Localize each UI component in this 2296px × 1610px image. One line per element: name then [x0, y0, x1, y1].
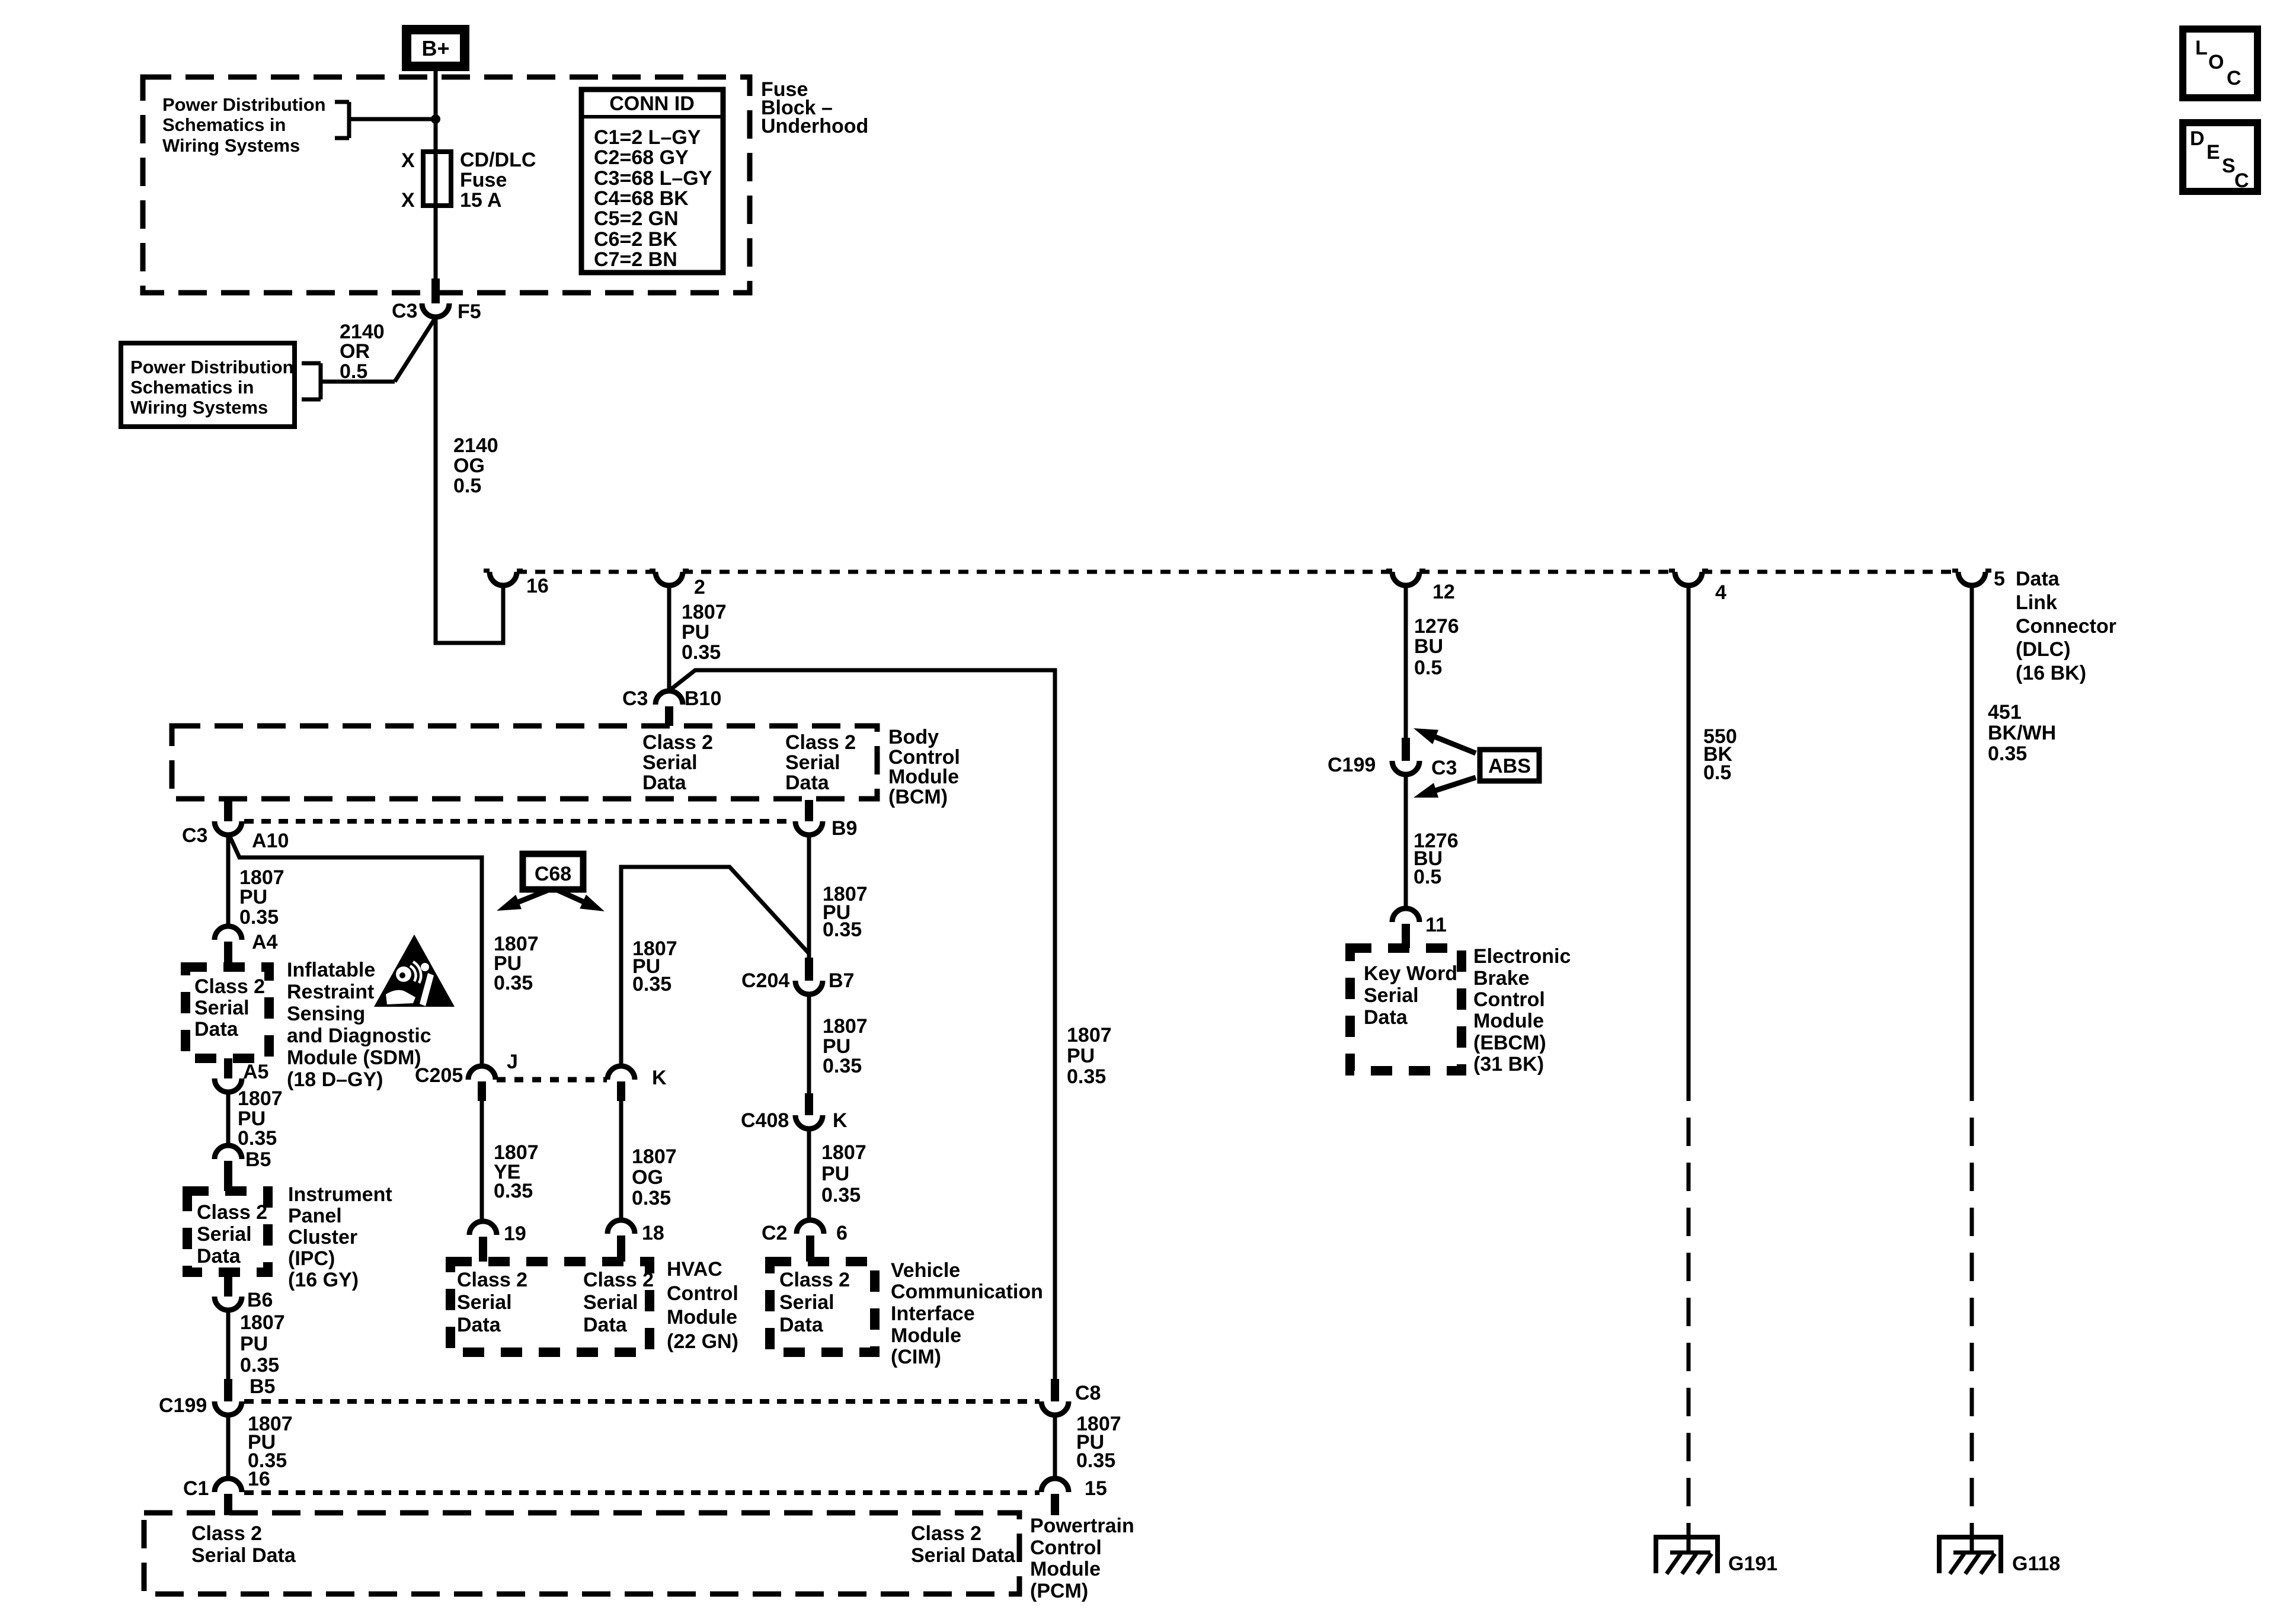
connector HVAC pin 19	[469, 1221, 497, 1262]
svg-text:Wiring Systems: Wiring Systems	[130, 397, 268, 418]
svg-text:C205: C205	[415, 1064, 463, 1087]
svg-text:Data: Data	[642, 772, 687, 794]
svg-text:Class 2: Class 2	[457, 1269, 527, 1291]
connector C3 F5	[422, 279, 449, 317]
svg-text:Restraint: Restraint	[287, 981, 374, 1003]
svg-text:Data: Data	[1364, 1006, 1408, 1029]
svg-text:E: E	[2207, 141, 2220, 164]
svg-text:C: C	[2234, 169, 2249, 192]
svg-text:BK/WH: BK/WH	[1988, 722, 2056, 744]
svg-text:Vehicle: Vehicle	[891, 1259, 960, 1282]
label 1807 PU 0.35 (SDM)	[239, 866, 284, 929]
svg-text:G191: G191	[1728, 1553, 1777, 1575]
connector DLC pin 12	[1386, 571, 1425, 585]
svg-text:Module: Module	[667, 1306, 737, 1329]
svg-text:Serial Data: Serial Data	[191, 1544, 296, 1567]
wire 1276 BU 0.5 (upper)	[1404, 584, 1408, 738]
svg-text:Control: Control	[1473, 988, 1545, 1011]
wire 1807 PU 0.35 (C199-C1)	[226, 1415, 231, 1478]
wire 1807 PU (C8-15)	[1053, 1415, 1057, 1478]
connector A4	[215, 926, 242, 967]
svg-text:C: C	[2227, 67, 2241, 89]
svg-text:Class 2: Class 2	[197, 1201, 267, 1224]
svg-text:Module: Module	[891, 1324, 961, 1347]
label Vehicle Communication Interface Module (CIM)	[891, 1259, 1043, 1368]
connector C1 pin 16	[215, 1478, 242, 1515]
svg-text:Electronic: Electronic	[1473, 945, 1571, 968]
svg-text:S: S	[2222, 155, 2236, 177]
wire 1276 BU 0.5 (lower)	[1404, 774, 1408, 909]
svg-text:1807: 1807	[682, 601, 727, 623]
svg-text:Serial: Serial	[779, 1291, 834, 1314]
svg-text:Data: Data	[457, 1314, 501, 1336]
label Power Distribution Schematics in Wiring Systems (fuse block)	[162, 94, 326, 156]
svg-text:18: 18	[642, 1222, 664, 1244]
label CD/DLC Fuse 15 A	[460, 149, 536, 212]
connector HVAC pin 18	[607, 1220, 635, 1262]
svg-text:(DLC): (DLC)	[2016, 638, 2071, 661]
svg-text:(PCM): (PCM)	[1030, 1580, 1088, 1602]
svg-text:0.35: 0.35	[1076, 1449, 1115, 1472]
junction dot	[431, 114, 440, 124]
DESC tab box	[2183, 123, 2257, 192]
connector C8	[1041, 1379, 1069, 1415]
dotted connector line C3-B9	[244, 819, 794, 824]
label 1276 BU 0.5 (lower)	[1414, 830, 1459, 888]
svg-text:(IPC): (IPC)	[288, 1247, 335, 1270]
svg-text:G118: G118	[2012, 1553, 2060, 1575]
svg-text:B6: B6	[247, 1289, 273, 1311]
svg-text:0.35: 0.35	[494, 972, 533, 994]
module box IPC Class 2 Serial Data	[187, 1191, 268, 1272]
wire 1807 PU branch to PCM C8	[670, 670, 1055, 1379]
svg-text:C3=68 L–GY: C3=68 L–GY	[594, 167, 712, 190]
wire 1807 PU (B7-C408)	[807, 994, 811, 1093]
label Body Control Module (BCM)	[888, 726, 960, 808]
svg-text:0.35: 0.35	[240, 1354, 279, 1377]
svg-text:Inflatable: Inflatable	[287, 959, 375, 981]
svg-text:PU: PU	[682, 621, 709, 644]
svg-text:Data: Data	[583, 1314, 628, 1336]
svg-text:J: J	[507, 1051, 518, 1073]
svg-text:(16 GY): (16 GY)	[288, 1269, 359, 1291]
svg-text:Data: Data	[785, 772, 830, 794]
svg-text:451: 451	[1988, 701, 2022, 724]
svg-text:4: 4	[1715, 581, 1726, 604]
svg-text:C68: C68	[535, 863, 571, 885]
svg-text:(18 D–GY): (18 D–GY)	[287, 1068, 383, 1091]
wire 1807 PU (C408-CIM)	[807, 1129, 811, 1220]
svg-text:C4=68 BK: C4=68 BK	[594, 187, 689, 210]
svg-text:Serial: Serial	[583, 1291, 638, 1314]
connector DLC pin 2	[650, 571, 689, 585]
wire 1807 PU (K branch)	[621, 867, 808, 1067]
power symbol B+	[402, 25, 469, 71]
svg-text:Connector: Connector	[2016, 615, 2116, 638]
svg-text:B5: B5	[250, 1375, 275, 1398]
svg-text:Fuse: Fuse	[460, 169, 507, 191]
svg-text:C6=2 BK: C6=2 BK	[594, 228, 677, 251]
svg-text:Power Distribution: Power Distribution	[162, 94, 326, 115]
svg-text:C3: C3	[622, 687, 648, 710]
dotted connector line C199-C8	[244, 1399, 1040, 1404]
label 1807 YE 0.35	[494, 1141, 539, 1202]
svg-text:1807: 1807	[1067, 1024, 1112, 1046]
wire B+ to fuse	[434, 70, 438, 281]
svg-text:HVAC: HVAC	[667, 1258, 722, 1281]
svg-text:Class 2: Class 2	[191, 1522, 262, 1545]
svg-text:0.35: 0.35	[632, 1187, 671, 1209]
svg-text:1807: 1807	[821, 1141, 866, 1164]
svg-text:Class 2: Class 2	[911, 1522, 981, 1545]
svg-text:X: X	[401, 149, 415, 172]
svg-text:(16 BK): (16 BK)	[2016, 662, 2086, 684]
svg-text:Class 2: Class 2	[583, 1269, 654, 1291]
svg-text:C1: C1	[183, 1477, 209, 1500]
svg-text:Body: Body	[888, 726, 939, 748]
svg-text:Control: Control	[1030, 1537, 1102, 1559]
svg-text:15 A: 15 A	[460, 189, 502, 212]
wire 1807 PU 0.35 (A5-B5)	[226, 1092, 231, 1145]
module box CIM	[770, 1262, 875, 1352]
svg-text:C3: C3	[1431, 757, 1457, 779]
svg-text:1807: 1807	[823, 1015, 868, 1038]
label 1807 PU 0.35 (B7)	[823, 1015, 868, 1077]
label 1807 PU 0.35 (K)	[632, 937, 677, 996]
dotted connector line C1-15	[244, 1490, 1040, 1495]
label 1807 OG 0.35	[632, 1145, 677, 1209]
label 2140 OR 0.5	[340, 321, 385, 383]
svg-text:1807: 1807	[632, 1145, 677, 1168]
splice C68 box	[523, 854, 583, 889]
svg-text:B10: B10	[685, 687, 721, 710]
label Key Word Serial Data	[1364, 962, 1457, 1029]
label 1807 PU 0.35 (C8 branch)	[1067, 1024, 1112, 1088]
module box Key Word Serial Data (EBCM)	[1350, 948, 1462, 1071]
label 1276 BU 0.5 (upper)	[1414, 615, 1459, 679]
wire 1807 OG 0.35	[619, 1101, 623, 1220]
label Class 2 Serial Data (SDM)	[194, 975, 265, 1041]
connector A5	[215, 1058, 242, 1092]
svg-text:A4: A4	[252, 931, 278, 953]
label Class 2 Serial Data (IPC)	[197, 1201, 267, 1267]
label 1807 PU 0.35 (A5-B5)	[238, 1087, 283, 1150]
label Instrument Panel Cluster (IPC) (16 GY)	[288, 1183, 392, 1291]
svg-text:0.35: 0.35	[494, 1180, 533, 1202]
svg-text:Link: Link	[2016, 591, 2057, 614]
label Class 2 Serial Data (PCM left)	[191, 1522, 296, 1567]
label 1807 PU 0.35 (C408)	[821, 1141, 866, 1206]
svg-text:CD/DLC: CD/DLC	[460, 149, 536, 171]
svg-text:Data: Data	[779, 1314, 824, 1336]
svg-text:Serial: Serial	[194, 997, 250, 1019]
svg-text:0.35: 0.35	[239, 906, 279, 929]
svg-text:0.5: 0.5	[1703, 761, 1731, 784]
svg-text:0.35: 0.35	[632, 973, 671, 996]
svg-text:0.35: 0.35	[1988, 742, 2027, 765]
svg-text:0.5: 0.5	[1414, 657, 1442, 679]
wire 1807 PU (A10 to C205 J)	[229, 836, 482, 1067]
label Inflatable Restraint Sensing and Diagnostic Module (SDM) (18 D-GY)	[287, 959, 431, 1091]
wire 2140 OG 0.5	[436, 317, 503, 643]
svg-text:C408: C408	[741, 1109, 789, 1132]
svg-text:19: 19	[504, 1222, 526, 1245]
wire 1807 PU (B9 to C204)	[807, 835, 811, 958]
connector C199 B5	[215, 1379, 242, 1415]
svg-text:Data: Data	[197, 1245, 241, 1267]
svg-text:K: K	[652, 1067, 667, 1089]
connector B9	[795, 800, 823, 835]
reference box ABS	[1480, 750, 1539, 781]
module box SDM Class 2 Serial Data	[186, 967, 269, 1058]
connector B6	[215, 1272, 242, 1310]
svg-text:C3: C3	[182, 824, 207, 847]
connector C199 C3 (EBCM)	[1392, 738, 1419, 774]
arrow ABS upper	[1430, 735, 1476, 753]
svg-text:Sensing: Sensing	[287, 1003, 365, 1025]
svg-text:1807: 1807	[240, 1311, 285, 1334]
svg-text:OG: OG	[453, 454, 485, 477]
svg-text:1276: 1276	[1414, 615, 1459, 638]
svg-text:PU: PU	[240, 1333, 268, 1355]
module box PCM	[144, 1513, 1019, 1594]
svg-text:Serial: Serial	[457, 1291, 512, 1314]
svg-text:0.5: 0.5	[453, 475, 481, 497]
svg-text:ABS: ABS	[1488, 755, 1531, 777]
svg-text:Schematics in: Schematics in	[130, 377, 254, 398]
svg-text:Data: Data	[2016, 568, 2060, 590]
svg-text:PU: PU	[1067, 1045, 1095, 1067]
svg-text:Powertrain: Powertrain	[1030, 1515, 1134, 1537]
label Electronic Brake Control Module (EBCM) (31 BK)	[1473, 945, 1571, 1076]
dotted connector line J-K	[497, 1077, 607, 1083]
ground G191	[1654, 1523, 1720, 1574]
svg-text:Underhood: Underhood	[761, 115, 868, 137]
label Class 2 Serial Data (BCM right)	[785, 731, 856, 794]
connector C3 B10	[655, 691, 683, 726]
connector DLC pin 5	[1952, 571, 1991, 585]
svg-text:5: 5	[1994, 568, 2005, 590]
module box BCM	[172, 726, 877, 799]
svg-text:Serial: Serial	[785, 751, 840, 774]
svg-text:F5: F5	[458, 300, 481, 323]
svg-text:C2: C2	[762, 1222, 787, 1244]
svg-text:Communication: Communication	[891, 1281, 1043, 1303]
svg-text:Power Distribution: Power Distribution	[130, 357, 294, 377]
connector C2 pin 6	[797, 1220, 824, 1262]
svg-text:(BCM): (BCM)	[888, 786, 948, 808]
svg-text:K: K	[833, 1109, 848, 1132]
label Data Link Connector (DLC) (16 BK)	[2016, 568, 2116, 684]
wire bracket to B+ feed	[349, 117, 436, 121]
svg-text:Key Word: Key Word	[1364, 962, 1457, 985]
label 1807 PU 0.35 (C8-15)	[1076, 1413, 1121, 1472]
module box HVAC Control Module	[450, 1262, 650, 1352]
svg-text:D: D	[2190, 127, 2205, 150]
CONN ID table	[581, 89, 723, 273]
label Class 2 Serial Data (HVAC right)	[583, 1269, 654, 1336]
svg-text:(22 GN): (22 GN)	[667, 1330, 738, 1353]
svg-text:Cluster: Cluster	[288, 1226, 357, 1249]
connector B5 (IPC)	[215, 1145, 242, 1191]
label Class 2 Serial Data (CIM)	[779, 1269, 850, 1336]
label 1807 PU 0.35 (B9)	[823, 883, 868, 941]
wire 451 BK/WH dashed to G118	[1970, 1073, 1974, 1535]
svg-text:BU: BU	[1414, 635, 1443, 658]
svg-text:(EBCM): (EBCM)	[1473, 1032, 1546, 1054]
label 1807 PU 0.35 16	[248, 1413, 293, 1490]
wire 2140 OR to connector	[321, 319, 434, 382]
wire 451 BK/WH 0.35	[1970, 584, 1974, 1073]
svg-text:Class 2: Class 2	[642, 731, 713, 754]
svg-text:12: 12	[1432, 581, 1455, 603]
wire 1807 PU 0.35 to BCM	[667, 584, 671, 691]
svg-text:0.35: 0.35	[821, 1184, 861, 1206]
svg-text:C199: C199	[1328, 754, 1376, 776]
svg-text:0.5: 0.5	[340, 360, 367, 383]
connector C408 K	[795, 1093, 823, 1129]
connector C205 J	[468, 1066, 495, 1101]
svg-text:0.35: 0.35	[682, 641, 721, 664]
svg-text:C3: C3	[392, 300, 417, 322]
svg-text:C204: C204	[741, 969, 789, 992]
svg-text:0.35: 0.35	[1067, 1065, 1106, 1088]
svg-text:15: 15	[1085, 1477, 1107, 1500]
svg-text:Module: Module	[1030, 1558, 1101, 1580]
fuse block underhood dashed box	[143, 77, 750, 293]
label 1807 PU 0.35 (B6-B5)	[240, 1311, 285, 1377]
svg-text:C7=2 BN: C7=2 BN	[594, 248, 677, 271]
bracket to wire 2140	[302, 363, 321, 399]
svg-text:C2=68 GY: C2=68 GY	[594, 146, 689, 169]
svg-text:2: 2	[694, 576, 705, 598]
svg-text:B5: B5	[245, 1148, 271, 1171]
svg-text:Schematics in: Schematics in	[162, 114, 286, 135]
svg-text:Data: Data	[194, 1018, 239, 1041]
svg-text:Interface: Interface	[891, 1302, 975, 1325]
DLC internal bus dashed line	[517, 570, 1959, 574]
svg-text:Instrument: Instrument	[288, 1183, 392, 1206]
label Powertrain Control Module (PCM)	[1030, 1515, 1134, 1602]
svg-text:0.5: 0.5	[1414, 866, 1441, 888]
svg-text:B7: B7	[829, 969, 854, 992]
svg-text:Module: Module	[1473, 1010, 1544, 1032]
svg-text:11: 11	[1425, 914, 1447, 936]
svg-text:OR: OR	[340, 340, 370, 363]
svg-text:OG: OG	[632, 1166, 663, 1189]
svg-text:O: O	[2208, 51, 2224, 73]
svg-text:0.35: 0.35	[238, 1127, 277, 1150]
label Class 2 Serial Data (PCM right)	[911, 1522, 1016, 1567]
svg-text:Wiring Systems: Wiring Systems	[162, 135, 300, 156]
connector DLC pin 4	[1669, 571, 1708, 585]
svg-text:1807: 1807	[238, 1087, 283, 1110]
svg-text:A5: A5	[243, 1061, 268, 1083]
svg-text:Module: Module	[888, 766, 959, 788]
warning triangle airbag icon	[374, 934, 455, 1007]
wire 1807 PU 0.35 (SDM)	[226, 835, 231, 926]
reference box Power Distribution Schematics in Wiring Systems	[121, 343, 295, 427]
connector C3 A10	[215, 800, 242, 835]
svg-text:Class 2: Class 2	[785, 731, 856, 754]
wire 1807 PU 0.35 (B6-B5)	[226, 1310, 231, 1379]
ground G118	[1937, 1523, 2003, 1574]
svg-text:A10: A10	[252, 830, 289, 852]
svg-text:(31 BK): (31 BK)	[1473, 1053, 1544, 1076]
svg-text:PU: PU	[239, 886, 267, 908]
svg-text:B9: B9	[832, 817, 857, 840]
svg-text:Module (SDM): Module (SDM)	[287, 1046, 421, 1069]
svg-text:(CIM): (CIM)	[891, 1346, 941, 1368]
arrow C68 right	[555, 889, 589, 904]
svg-text:Serial Data: Serial Data	[911, 1544, 1016, 1567]
wire 550 BK 0.5	[1687, 584, 1691, 1073]
svg-text:Serial: Serial	[1364, 984, 1419, 1007]
label Class 2 Serial Data (HVAC left)	[457, 1269, 527, 1336]
svg-text:B+: B+	[421, 36, 449, 60]
connector C205 K	[607, 1066, 635, 1101]
label Class 2 Serial Data (BCM left)	[642, 731, 713, 794]
svg-text:and Diagnostic: and Diagnostic	[287, 1025, 431, 1047]
svg-text:C8: C8	[1075, 1382, 1101, 1404]
svg-text:Class 2: Class 2	[194, 975, 265, 998]
connector DLC pin 16	[484, 571, 523, 585]
svg-text:C1=2 L–GY: C1=2 L–GY	[594, 126, 701, 149]
svg-text:Class 2: Class 2	[779, 1269, 850, 1291]
label 1807 PU 0.35 (J)	[494, 933, 539, 994]
connector PCM pin 15	[1041, 1478, 1069, 1515]
bracket to wire	[335, 102, 349, 138]
label 1807 PU 0.35 (pin 2)	[682, 601, 727, 664]
svg-text:0.35: 0.35	[823, 1055, 862, 1077]
label HVAC Control Module (22 GN)	[667, 1258, 738, 1353]
svg-text:Serial: Serial	[642, 751, 698, 774]
label 2140 OG 0.5	[453, 434, 498, 497]
svg-text:2140: 2140	[453, 434, 498, 457]
svg-text:Control: Control	[667, 1282, 738, 1305]
wire 1807 YE 0.35	[480, 1101, 484, 1221]
LOC tab box	[2183, 29, 2257, 98]
connector C204 B7	[795, 958, 823, 994]
label Fuse Block - Underhood	[761, 78, 868, 137]
wire 550 BK dashed to G191	[1687, 1073, 1691, 1535]
label 451 BK/WH 0.35	[1988, 701, 2056, 765]
arrow C68 left	[513, 889, 551, 904]
svg-text:Brake: Brake	[1473, 967, 1530, 990]
svg-text:PU: PU	[821, 1163, 849, 1185]
label 550 BK 0.5	[1703, 725, 1737, 784]
svg-text:16: 16	[526, 575, 549, 597]
arrow ABS lower	[1431, 777, 1476, 792]
svg-text:16: 16	[248, 1468, 270, 1490]
svg-text:Panel: Panel	[288, 1205, 342, 1227]
connector EBCM pin 11	[1392, 908, 1419, 948]
svg-text:0.35: 0.35	[823, 918, 862, 941]
svg-text:L: L	[2195, 37, 2208, 59]
svg-text:6: 6	[836, 1222, 848, 1244]
svg-text:CONN ID: CONN ID	[609, 92, 695, 115]
svg-text:Serial: Serial	[197, 1223, 252, 1246]
svg-text:C199: C199	[159, 1394, 207, 1417]
svg-text:X: X	[401, 189, 415, 212]
svg-text:C5=2 GN: C5=2 GN	[594, 207, 679, 230]
fuse CD/DLC 15 A	[423, 152, 451, 206]
